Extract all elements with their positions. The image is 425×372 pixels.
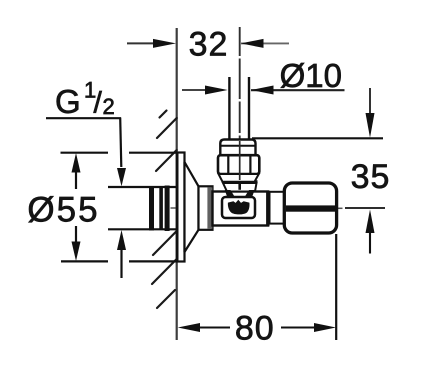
- svg-text:80: 80: [235, 310, 275, 348]
- svg-text:Ø10: Ø10: [280, 57, 342, 94]
- svg-text:G: G: [55, 83, 81, 120]
- svg-text:35: 35: [351, 158, 391, 196]
- svg-text:/: /: [94, 87, 103, 120]
- svg-text:Ø55: Ø55: [27, 191, 99, 230]
- svg-text:32: 32: [189, 26, 229, 64]
- svg-text:2: 2: [103, 94, 115, 119]
